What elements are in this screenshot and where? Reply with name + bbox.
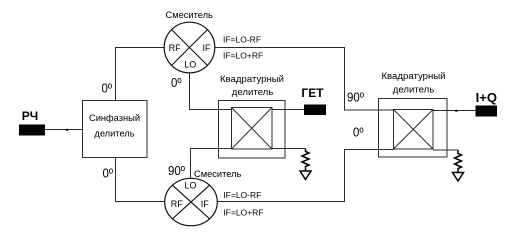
svg-text:Квадратурный: Квадратурный	[381, 71, 445, 82]
svg-text:Смеситель: Смеситель	[165, 10, 213, 20]
svg-text:IF=LO-RF: IF=LO-RF	[223, 190, 261, 200]
svg-text:0º: 0º	[353, 125, 364, 140]
svg-text:RF: RF	[171, 199, 183, 209]
svg-text:РЧ: РЧ	[22, 109, 38, 123]
svg-text:0º: 0º	[103, 165, 114, 180]
svg-text:0º: 0º	[171, 75, 182, 90]
svg-text:IF=LO+RF: IF=LO+RF	[223, 208, 263, 218]
svg-text:IF=LO+RF: IF=LO+RF	[223, 51, 263, 61]
svg-text:RF: RF	[169, 43, 181, 53]
svg-text:делитель: делитель	[393, 85, 434, 96]
svg-text:IF: IF	[201, 199, 210, 209]
svg-text:ГЕТ: ГЕТ	[301, 86, 324, 100]
svg-text:I+Q: I+Q	[476, 90, 497, 105]
svg-text:IF=LO-RF: IF=LO-RF	[223, 34, 261, 44]
svg-text:LO: LO	[184, 181, 196, 191]
svg-text:IF: IF	[203, 43, 212, 53]
svg-text:Синфазный: Синфазный	[89, 113, 140, 123]
svg-text:LO: LO	[184, 60, 196, 70]
svg-text:90º: 90º	[168, 163, 185, 178]
svg-text:Квадратурный: Квадратурный	[220, 74, 284, 85]
svg-text:делитель: делитель	[94, 129, 134, 139]
svg-text:0º: 0º	[102, 81, 113, 96]
svg-text:90º: 90º	[347, 90, 364, 105]
svg-text:Смеситель: Смеситель	[194, 169, 242, 179]
svg-text:делитель: делитель	[232, 87, 273, 98]
